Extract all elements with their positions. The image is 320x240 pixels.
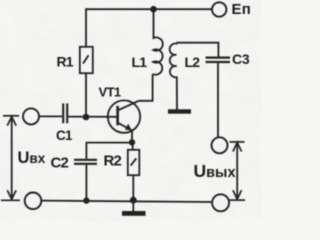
wire emitter node to C2 [86,143,132,159]
capacitor C3 [206,58,230,62]
wire bottom rail [42,201,212,202]
svg-text:Uвх: Uвх [18,149,46,167]
svg-text:C1: C1 [56,128,73,143]
resistor R2 [128,143,140,200]
wire C1 to transistor base [68,116,117,118]
terminal output top [212,137,228,153]
wire R1 bottom to base node [85,74,87,117]
ground under L2 [168,109,191,113]
node junction dot on top rail above L1 [150,6,157,13]
svg-text:C2: C2 [51,154,69,171]
wire L2 top to C3 [176,43,218,57]
terminal output bottom [212,194,229,211]
svg-text:Eп: Eп [232,1,251,18]
ground under R2 [122,200,146,216]
wire top rail from R1 top to Ep terminal [86,9,212,46]
svg-text:L1: L1 [132,54,148,70]
dimension arrow Uvx [1,116,20,201]
capacitor C1 [63,103,67,123]
node emitter junction dot [129,139,135,145]
svg-text:R2: R2 [104,153,122,170]
svg-text:VT1: VT1 [99,85,121,100]
svg-text:L2: L2 [185,54,201,70]
dimension arrow Uvyx [230,142,246,200]
terminal input bottom [25,193,42,210]
inductor L1 [153,11,163,75]
wire input terminal to C1 [39,115,62,117]
resistor R1 [80,47,93,73]
transistor VT1 [108,100,140,141]
capacitor C2 [74,160,97,164]
svg-text:C3: C3 [232,51,250,67]
terminal input top [23,108,39,124]
wire C3 to output top terminal [217,63,219,137]
node R2 rail junction dot [130,197,137,204]
wire C2 bottom to rail [85,165,87,201]
terminal Ep [212,2,226,16]
wire collector to L1 bottom [138,74,152,101]
svg-text:R1: R1 [57,54,74,70]
node C2 rail junction dot [83,197,89,203]
inductor L2 [170,43,177,110]
node base junction dot [83,114,90,121]
